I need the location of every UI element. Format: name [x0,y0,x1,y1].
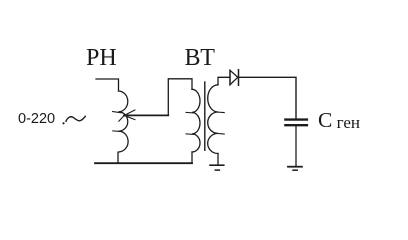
label PH (variac) [86,45,117,72]
primary cusp ticks [186,112,194,134]
AC tilde dot [62,122,64,124]
autotransformer PH winding [118,91,128,163]
transformer core [204,82,206,150]
wire arrow shaft [128,114,169,116]
AC tilde symbol [66,116,85,121]
wire primary bottom lead [191,152,193,163]
ground secondary [210,164,224,166]
diode VD triangle [230,70,238,84]
wire bottom rail [95,162,192,164]
wire secondary bottom lead [217,154,219,165]
wire variac input top [96,79,119,91]
wire secondary top lead [218,77,230,85]
label 0-220 [18,111,55,127]
capacitor C gen bottom plate [285,124,307,126]
wire tap to primary top [168,79,192,116]
label C gen [318,108,360,133]
arrowhead at variac tap [113,110,135,121]
variac cusp tick lower [113,130,121,133]
label BT (transformer) [185,45,215,72]
transformer BT secondary winding [208,85,218,154]
ground capacitor [288,166,302,168]
diode VD anode bar [229,70,231,84]
capacitor C gen top plate [285,118,307,120]
secondary cusp ticks [216,112,224,134]
wire capacitor bottom lead [295,126,297,165]
wire diode to capacitor [239,77,297,118]
diode VD cathode bar [238,70,240,86]
transformer BT primary winding [192,89,200,152]
